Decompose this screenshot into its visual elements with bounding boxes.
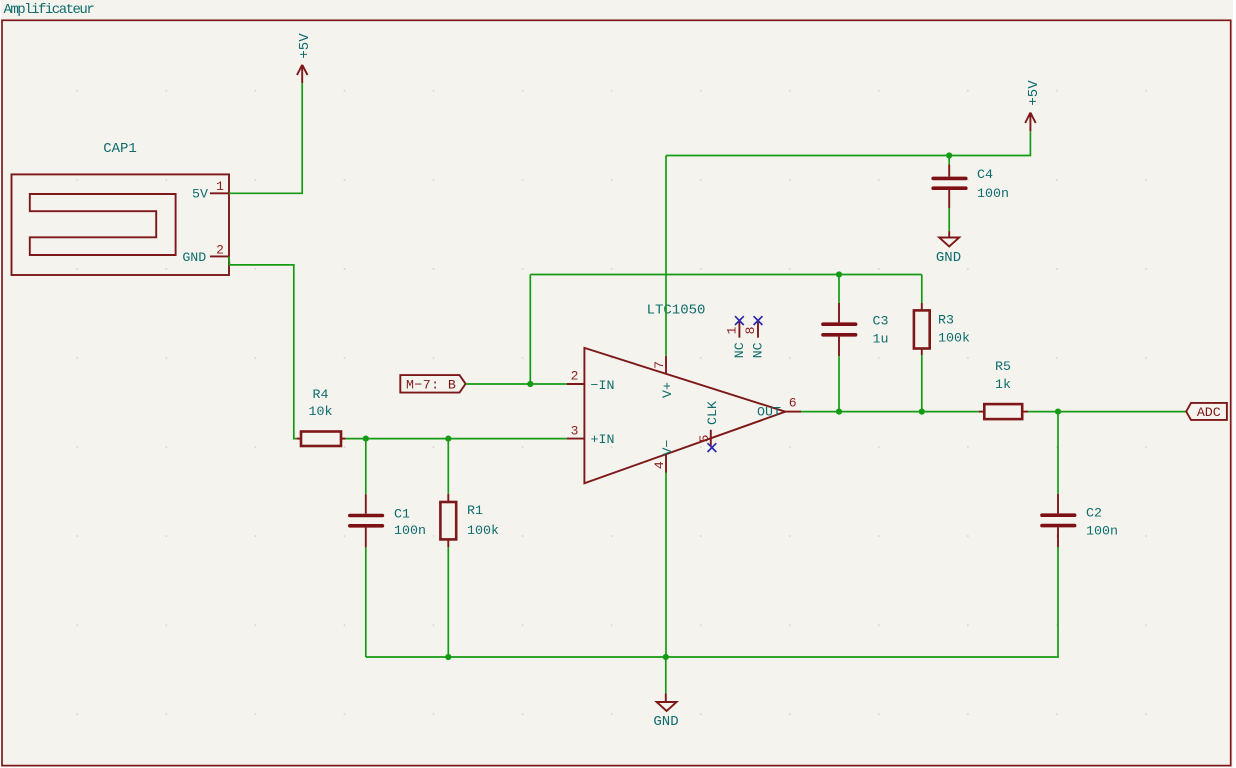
node junction GND rail (663, 654, 669, 660)
resistor R3 (914, 303, 970, 355)
op-amp pin 1 NC (no-connect) (724, 316, 747, 358)
svg-text:M−7: B: M−7: B (406, 378, 456, 393)
resistor R1 (440, 494, 499, 547)
CAP1 pin 1 (5V) (192, 179, 229, 202)
node junction C2 top (1055, 409, 1061, 415)
wire R3 bottom lead (921, 355, 923, 412)
capacitor C1 (350, 494, 426, 547)
svg-text:4: 4 (652, 461, 667, 469)
op-amp pin 8 NC (no-connect) (743, 316, 766, 358)
svg-text:+IN: +IN (591, 432, 615, 447)
svg-text:C3: C3 (873, 313, 889, 328)
svg-text:−IN: −IN (591, 378, 615, 393)
wire C3 top lead (838, 275, 840, 304)
wire R1 top lead (447, 439, 449, 494)
op-amp pin 6 OUT (757, 396, 801, 420)
op-amp pin 7 V+ (652, 356, 675, 398)
op-amp pin 2 -IN (567, 369, 615, 393)
svg-text:NC: NC (751, 342, 766, 358)
wire C1 top lead (365, 439, 367, 495)
capacitor C3 (823, 303, 888, 356)
wire C2 bottom to ground rail (366, 547, 1058, 657)
wire feedback down to R3 (921, 275, 923, 304)
CAP1 pin 2 (GND) (182, 242, 229, 264)
node junction C3 top (836, 271, 842, 277)
svg-text:NC: NC (732, 342, 747, 358)
capacitor C4 (933, 165, 1009, 209)
node junction at C1 top (363, 436, 369, 442)
node junction at R1 top (445, 436, 451, 442)
svg-text:100n: 100n (1086, 523, 1118, 538)
svg-text:1: 1 (724, 326, 739, 334)
svg-text:3: 3 (571, 423, 579, 438)
node junction R3 bottom (919, 409, 925, 415)
svg-text:LTC1050: LTC1050 (647, 303, 706, 319)
op-amp pin 5 CLK (no-connect) (697, 401, 720, 452)
svg-text:CLK: CLK (705, 401, 720, 425)
capacitor C2 (1042, 494, 1118, 547)
ground symbol at C4 (936, 231, 961, 266)
svg-text:1k: 1k (995, 377, 1011, 392)
svg-text:100k: 100k (467, 523, 499, 538)
wire feedback top run (530, 274, 922, 276)
op-amp pin 4 V- (652, 440, 675, 473)
wire -IN net up to feedback wire (529, 275, 531, 385)
svg-text:R5: R5 (995, 359, 1011, 374)
wire V- pin down to ground rail (665, 473, 667, 658)
svg-text:V+: V+ (660, 382, 675, 398)
svg-text:+5V: +5V (1026, 80, 1042, 106)
wire top rail to +5V right (666, 131, 1030, 155)
node junction C4 top (946, 152, 952, 158)
svg-text:100n: 100n (977, 186, 1009, 201)
svg-text:Amplificateur: Amplificateur (4, 2, 95, 18)
svg-text:R4: R4 (313, 387, 329, 402)
svg-text:GND: GND (936, 250, 961, 266)
wire C4 bottom lead (948, 208, 950, 231)
svg-text:5V: 5V (192, 187, 208, 202)
wire R4 to +IN (346, 438, 567, 440)
op-amp U1 LTC1050 (584, 303, 785, 484)
svg-text:+5V: +5V (297, 33, 313, 59)
svg-text:2: 2 (571, 369, 579, 384)
wire V+ pin up to top rail (665, 156, 667, 356)
wire ground stub (665, 657, 667, 693)
wire CAP1 pin2 to R4 (229, 256, 297, 438)
svg-text:R3: R3 (938, 313, 954, 328)
power symbol +5V left (297, 33, 313, 83)
svg-text:8: 8 (743, 326, 758, 334)
svg-text:7: 7 (652, 361, 667, 369)
wire +5V to CAP1 pin1 (229, 83, 302, 193)
svg-text:OUT: OUT (757, 405, 781, 420)
svg-text:C1: C1 (394, 506, 410, 521)
wire C2 top lead (1057, 412, 1059, 494)
svg-text:GND: GND (653, 714, 678, 730)
svg-text:GND: GND (182, 250, 206, 265)
wire R5 to ADC (1028, 411, 1186, 413)
wire M-7:B to -IN (466, 383, 567, 385)
svg-text:5: 5 (697, 434, 712, 442)
node junction R1 bottom (445, 654, 451, 660)
wire OUT net (801, 411, 979, 413)
svg-text:100n: 100n (394, 523, 426, 538)
svg-text:10k: 10k (309, 404, 333, 419)
ground symbol bottom (653, 693, 678, 729)
svg-text:C4: C4 (977, 167, 993, 182)
sensor CAP1 (12, 141, 230, 275)
node junction -IN net (527, 381, 533, 387)
resistor R5 (979, 359, 1028, 419)
svg-text:V−: V− (660, 440, 675, 456)
op-amp pin 3 +IN (567, 423, 615, 447)
svg-text:6: 6 (789, 396, 797, 411)
wire C1 bottom lead (365, 547, 367, 657)
wire C4 top lead (948, 156, 950, 165)
svg-text:2: 2 (216, 242, 224, 257)
svg-text:CAP1: CAP1 (103, 141, 137, 157)
hierarchical label M-7: B (400, 375, 465, 393)
svg-text:R1: R1 (467, 503, 483, 518)
svg-text:1: 1 (216, 179, 224, 194)
wire C3 bottom lead (838, 356, 840, 411)
svg-text:1u: 1u (873, 331, 889, 346)
power symbol +5V right (1025, 80, 1042, 131)
svg-text:100k: 100k (938, 331, 970, 346)
wire R1 bottom lead (447, 547, 449, 657)
resistor R4 (297, 387, 346, 446)
node junction C3 bottom (836, 409, 842, 415)
hierarchical label ADC (1186, 403, 1227, 420)
svg-text:C2: C2 (1086, 505, 1102, 520)
svg-text:ADC: ADC (1197, 405, 1221, 420)
